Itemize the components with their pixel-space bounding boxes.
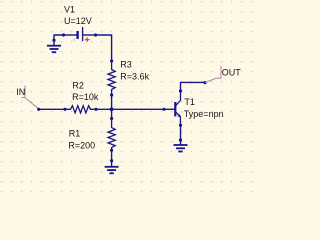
node: bottom pin [110,149,113,152]
node: mid junction (R2/R3/R1) [110,107,114,111]
node: ground pin dot [110,159,113,162]
transistor T1 (npn) [164,89,182,126]
node: collector pin [179,89,182,92]
svg-text:IN: IN [16,87,25,97]
node: right pin [94,33,97,36]
collector diagonal [176,91,181,105]
node: ground pin dot [52,39,55,42]
node: left pin [62,33,65,36]
wire: junction to R1 top [111,109,113,118]
ground (under R1) [105,167,119,174]
svg-text:Type=npn: Type=npn [184,109,224,119]
node: IN [37,108,40,111]
svg-text:U=12V: U=12V [64,16,92,26]
node: ground pin dot [179,138,182,141]
node: top pin [110,117,113,120]
resistor R3 [108,59,115,96]
negative plate (short thick) [76,31,78,39]
svg-text:R=3.6k: R=3.6k [120,72,149,82]
node: bottom pin [110,93,113,96]
base bar [174,102,176,116]
wire: IN to R2 [39,108,65,110]
wire: emitter to ground [180,125,182,145]
node: top pin [110,59,113,62]
port IN [22,86,39,109]
wire: battery to R3 top [96,35,112,61]
pin wire right [83,34,96,36]
plus sign (red) [85,38,90,42]
wire: R3 bottom to mid junction [111,95,113,109]
grid dots [0,0,257,196]
emitter diagonal with arrow [176,112,181,125]
emitter arrowhead [177,114,180,117]
positive plate (tall thin) [82,27,84,41]
svg-text:R2: R2 [72,81,84,91]
svg-text:R1: R1 [69,129,81,139]
svg-text:V1: V1 [64,4,75,14]
node: OUT [203,81,206,84]
node: right pin [94,108,97,111]
svg-text:R=10k: R=10k [72,92,99,102]
svg-text:R3: R3 [120,60,132,70]
port OUT [205,66,221,83]
base pin wire [164,108,175,110]
wire: R1 bottom to ground [111,150,113,167]
voltage source V1 (battery) [62,27,97,42]
wire: R2 to junction to T1 base [96,108,164,110]
pin wire left [64,34,77,36]
svg-text:T1: T1 [184,97,195,107]
svg-text:R=200: R=200 [68,140,95,150]
svg-text:OUT: OUT [222,67,242,77]
minus tick (grey) [73,38,75,41]
node: T1 base pin [162,108,165,111]
node: emitter pin [179,124,182,127]
ground (under V1 left terminal) [47,46,61,53]
wire: top net from ground corner to battery [54,35,64,46]
resistor R1 [108,109,115,152]
node: left pin [63,108,66,111]
wire: collector to OUT [181,82,206,91]
ground (under T1 emitter) [174,145,188,152]
resistor R2 [63,106,97,113]
